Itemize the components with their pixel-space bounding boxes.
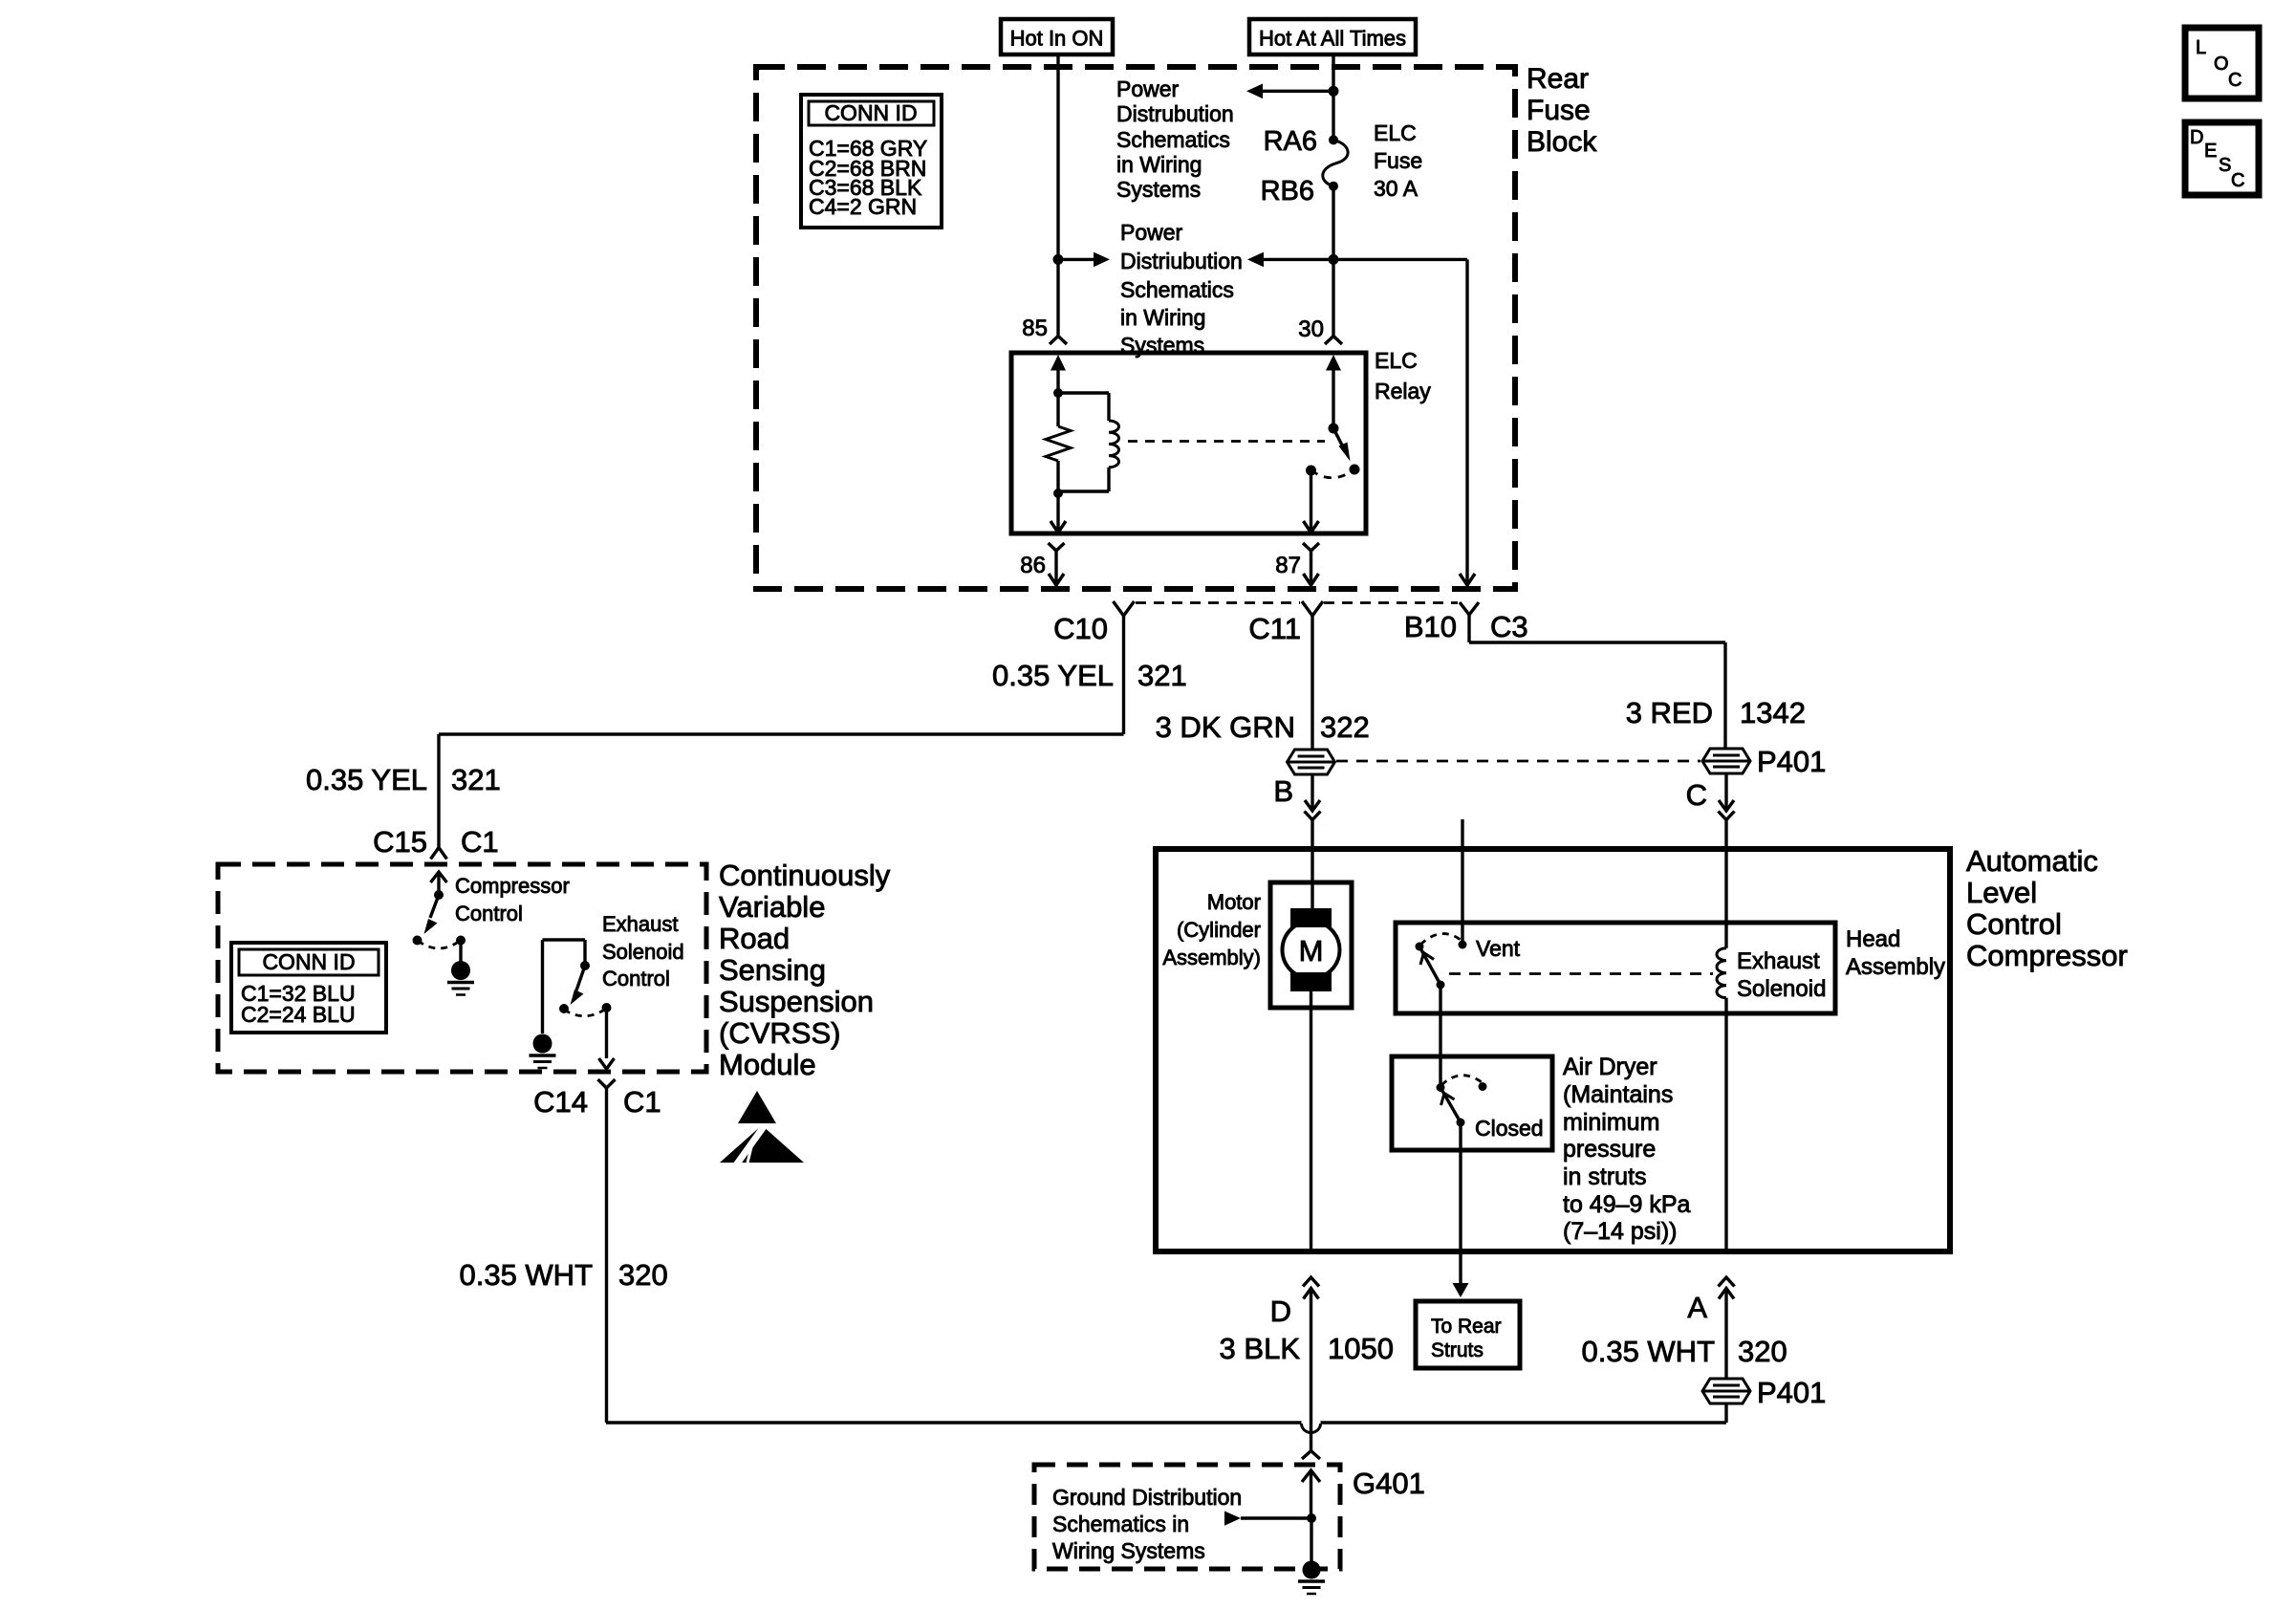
svg-text:Continuously: Continuously — [719, 859, 891, 892]
svg-text:1050: 1050 — [1328, 1332, 1394, 1365]
relay pin 85 entry arrow (inside box) — [1051, 355, 1066, 371]
svg-text:Automatic: Automatic — [1966, 844, 2098, 878]
svg-text:30 A: 30 A — [1374, 176, 1419, 201]
motor top terminal cap — [1290, 908, 1332, 927]
wire: junction to C3 feed (right then down) — [1333, 258, 1467, 261]
LOC reference box — [2185, 28, 2259, 98]
svg-text:Exhaust: Exhaust — [602, 912, 679, 936]
svg-text:320: 320 — [618, 1258, 668, 1292]
svg-text:pressure: pressure — [1563, 1136, 1656, 1163]
exhaust solenoid control fixed contact dot — [602, 1003, 612, 1012]
svg-text:Wiring Systems: Wiring Systems — [1052, 1538, 1205, 1563]
compressor control swing dashed arc — [418, 941, 460, 948]
relay NO contact dot — [1350, 465, 1360, 475]
svg-text:Solenoid: Solenoid — [1737, 976, 1826, 1002]
relay resistor element — [1056, 393, 1059, 426]
arrow to Power Distriubution text (left-pointing, lower) — [1264, 258, 1333, 261]
svg-text:Schematics: Schematics — [1120, 277, 1234, 302]
To Rear Struts box — [1416, 1301, 1520, 1368]
svg-text:Struts: Struts — [1431, 1339, 1484, 1361]
svg-text:C1: C1 — [623, 1085, 661, 1119]
svg-text:321: 321 — [1137, 659, 1187, 692]
svg-text:CONN ID: CONN ID — [824, 100, 917, 125]
svg-text:Power: Power — [1120, 220, 1183, 245]
svg-text:0.35 WHT: 0.35 WHT — [1581, 1335, 1715, 1368]
compressor control fixed contact dot — [456, 936, 466, 946]
vent switch blade with arrow — [1419, 946, 1440, 985]
svg-text:(CVRSS): (CVRSS) — [719, 1016, 840, 1050]
svg-text:Sensing: Sensing — [719, 953, 826, 987]
svg-text:C2=24 BLU: C2=24 BLU — [241, 1002, 356, 1027]
G401 inline connector — [1302, 1451, 1320, 1460]
exhaust solenoid control pivot dot — [580, 961, 590, 970]
relay contact swing dashed arc — [1311, 469, 1355, 478]
svg-text:G401: G401 — [1353, 1467, 1425, 1500]
svg-text:in Wiring: in Wiring — [1116, 152, 1202, 177]
terminal D connector below compressor box — [1303, 1277, 1319, 1287]
compressor control ground stem — [459, 941, 462, 963]
svg-text:minimum: minimum — [1563, 1109, 1659, 1136]
compressor control pivot dot — [434, 890, 444, 900]
wire: vent blade to air dryer — [1439, 985, 1441, 1088]
air dryer switch left contact dot — [1437, 1083, 1445, 1092]
svg-text:3 BLK: 3 BLK — [1220, 1332, 1301, 1365]
svg-text:Vent: Vent — [1476, 936, 1521, 961]
svg-text:Block: Block — [1527, 126, 1597, 158]
vent switch blade end dot — [1437, 981, 1445, 990]
wire: terminal B into compressor box — [1310, 820, 1313, 908]
Rear Fuse Block dashed enclosure — [756, 67, 1515, 589]
relay pin 86 exit arrow (inside box) — [1056, 493, 1059, 533]
connector chevron at pin 85 — [1050, 337, 1067, 345]
wire: air dryer to rear struts arrow — [1459, 1122, 1462, 1283]
wire: junction to ground — [1310, 1518, 1312, 1562]
svg-text:86: 86 — [1020, 553, 1046, 578]
connector chevron at pin 30 — [1325, 337, 1342, 345]
svg-text:C: C — [2228, 70, 2242, 91]
wire: solenoid to terminal A — [1724, 998, 1727, 1251]
svg-text:Suspension: Suspension — [719, 985, 874, 1018]
svg-text:M: M — [1299, 934, 1324, 968]
air dryer switch right contact dot — [1479, 1082, 1487, 1091]
Automatic Level Control Compressor box — [1156, 849, 1950, 1251]
svg-text:P401: P401 — [1757, 745, 1826, 778]
wire: terminal C into compressor box — [1724, 820, 1727, 948]
pin 87 connector below relay — [1303, 543, 1319, 551]
wire: Hot In ON to ELC relay pin 85 — [1056, 54, 1059, 337]
relay common contact dot — [1306, 466, 1316, 476]
relay switch blade — [1333, 428, 1345, 450]
svg-text:Fuse: Fuse — [1527, 95, 1591, 126]
svg-text:Systems: Systems — [1116, 177, 1201, 202]
arrow to Power Distrubution text (left-pointing, upper) — [1263, 90, 1333, 93]
svg-text:Schematics: Schematics — [1116, 127, 1230, 152]
ground G401 symbol — [1303, 1561, 1321, 1579]
svg-text:87: 87 — [1275, 553, 1301, 578]
svg-text:RB6: RB6 — [1261, 176, 1314, 207]
svg-text:Closed: Closed — [1475, 1116, 1544, 1141]
svg-text:To Rear: To Rear — [1431, 1316, 1502, 1338]
svg-text:C4=2 GRN: C4=2 GRN — [809, 194, 917, 219]
connector C14/C1 chevron — [598, 1079, 616, 1088]
svg-text:C1: C1 — [461, 825, 499, 859]
air dryer blade end dot — [1457, 1119, 1465, 1127]
svg-text:C: C — [2231, 170, 2244, 191]
inline connector P401 (left half) — [1288, 750, 1335, 774]
DESC reference box — [2185, 122, 2259, 195]
wire 3 RED 1342: C3 right and down — [1469, 641, 1725, 643]
relay switch pivot dot — [1329, 424, 1339, 434]
svg-text:Control: Control — [1966, 907, 2062, 941]
ground distribution reference arrow — [1224, 1512, 1241, 1526]
svg-text:0.35 YEL: 0.35 YEL — [992, 659, 1114, 692]
exhaust solenoid coil — [1717, 948, 1726, 998]
svg-text:Ground Distribution: Ground Distribution — [1052, 1485, 1242, 1510]
relay coil branch — [1058, 391, 1109, 394]
svg-text:Control: Control — [602, 967, 670, 990]
wire: fuse to relay pin 30 — [1332, 186, 1334, 337]
svg-text:C: C — [1686, 778, 1707, 812]
pin 86 connector below relay — [1049, 543, 1065, 551]
svg-text:85: 85 — [1022, 315, 1048, 341]
wire: P401 to terminal C — [1724, 772, 1727, 811]
ELC Fuse 30 A (fuse element RA6-RB6) — [1329, 135, 1338, 144]
svg-text:Control: Control — [455, 902, 523, 925]
svg-text:Schematics in: Schematics in — [1052, 1512, 1189, 1536]
junction dot on Hot-In-ON wire — [1053, 254, 1064, 265]
ground (exhaust solenoid control) — [533, 1034, 552, 1054]
wire: P401 to terminal B — [1310, 773, 1313, 811]
svg-text:(Cylinder: (Cylinder — [1177, 918, 1261, 942]
svg-text:Hot In ON: Hot In ON — [1010, 27, 1104, 51]
wire: motor to terminal D — [1310, 991, 1312, 1251]
relay coil top node dot — [1053, 388, 1063, 398]
ground run wire (with crossover hop) — [606, 1421, 1302, 1424]
relay coil bottom node dot — [1053, 489, 1063, 498]
svg-text:Head: Head — [1846, 926, 1900, 952]
svg-text:320: 320 — [1738, 1335, 1787, 1368]
wire: P401 down to ground run — [1724, 1403, 1727, 1423]
ground junction dot — [1307, 1513, 1316, 1523]
relay pin 87 exit arrow (inside box) — [1310, 470, 1312, 533]
svg-text:Fuse: Fuse — [1374, 148, 1422, 173]
svg-text:C11: C11 — [1248, 612, 1301, 645]
svg-text:Compressor: Compressor — [1966, 939, 2128, 972]
connector C15/C1 chevron — [431, 848, 447, 859]
exhaust solenoid control swing dashed arc — [564, 1009, 606, 1016]
svg-text:3 DK GRN: 3 DK GRN — [1156, 710, 1295, 744]
svg-text:322: 322 — [1320, 710, 1370, 744]
svg-text:Distriubution: Distriubution — [1120, 249, 1243, 273]
svg-text:B10: B10 — [1404, 610, 1457, 643]
ground (compressor control) — [451, 961, 470, 980]
svg-text:Variable: Variable — [719, 890, 825, 924]
svg-text:C14: C14 — [533, 1085, 588, 1119]
svg-text:(Maintains: (Maintains — [1563, 1081, 1673, 1108]
svg-text:3 RED: 3 RED — [1626, 696, 1713, 729]
power feed box: Hot In ON — [1001, 19, 1113, 54]
vent switch fixed contact dot — [1459, 941, 1467, 949]
motor M1 (cylinder assembly) outer box — [1270, 882, 1352, 1008]
wire 3 DK GRN 322: C11 down to P401 — [1310, 616, 1313, 751]
svg-text:321: 321 — [451, 763, 501, 796]
ELC Relay box — [1011, 353, 1366, 533]
svg-text:Distrubution: Distrubution — [1116, 101, 1234, 126]
svg-text:ELC: ELC — [1375, 348, 1418, 373]
inline connector P401 (right half) — [1702, 749, 1750, 773]
svg-text:0.35 YEL: 0.35 YEL — [306, 763, 427, 796]
svg-text:30: 30 — [1298, 316, 1324, 342]
svg-text:(7–14 psi)): (7–14 psi)) — [1563, 1218, 1678, 1245]
svg-text:in struts: in struts — [1563, 1164, 1647, 1190]
compressor control moving contact dot — [413, 936, 422, 946]
svg-text:B: B — [1273, 774, 1293, 808]
exhaust solenoid control moving contact dot — [559, 1004, 569, 1013]
ESD sensitivity symbol — [738, 1091, 776, 1123]
vent switch moving contact dot — [1416, 943, 1424, 951]
G401 dashed box — [1034, 1465, 1340, 1569]
air dryer swing dashed arc — [1441, 1076, 1482, 1085]
svg-text:Power: Power — [1116, 76, 1180, 101]
svg-text:RA6: RA6 — [1264, 126, 1317, 157]
connector row dashed line — [1136, 601, 1300, 604]
wire: exhaust solenoid control to C14 — [605, 1008, 608, 1058]
relay pin 30 entry arrow (inside box) — [1326, 355, 1341, 371]
wire: Hot At All Times to fuse — [1332, 54, 1334, 140]
svg-text:Road: Road — [719, 922, 790, 955]
svg-text:0.35 WHT: 0.35 WHT — [459, 1258, 593, 1292]
svg-text:A: A — [1687, 1291, 1707, 1324]
wire: vent feed stub — [1461, 819, 1463, 945]
svg-text:ELC: ELC — [1374, 120, 1417, 145]
svg-text:D: D — [2190, 127, 2203, 148]
CONN ID table (Rear Fuse Block) — [801, 95, 942, 228]
junction dot (to Power Distriubution ref, lower) — [1329, 254, 1339, 265]
svg-text:to 49–9 kPa: to 49–9 kPa — [1563, 1191, 1691, 1218]
connector C11 chevron — [1302, 601, 1323, 616]
svg-text:Assembly): Assembly) — [1162, 946, 1261, 969]
svg-text:in Wiring: in Wiring — [1120, 305, 1205, 330]
svg-text:C15: C15 — [373, 825, 427, 859]
arrow end of C3 feed wire at fuse block border — [1460, 574, 1475, 585]
terminal A connector below compressor box — [1719, 1277, 1735, 1287]
compressor control switch blade — [430, 895, 439, 918]
air dryer switch blade with arrow — [1442, 1091, 1461, 1122]
wire 0.35 YEL 321: C10 down, left and down to C15 — [1122, 616, 1125, 734]
svg-text:Solenoid: Solenoid — [602, 940, 684, 964]
svg-text:P401: P401 — [1757, 1376, 1826, 1409]
Air Dryer box — [1392, 1056, 1552, 1150]
relay coil-to-contact dashed link — [1128, 440, 1325, 443]
compressor control entry arrow — [431, 872, 447, 882]
exhaust solenoid control switch blade — [576, 966, 585, 990]
svg-text:Air Dryer: Air Dryer — [1563, 1054, 1657, 1080]
wire 0.35 WHT 320: C14 down to ground run — [605, 1088, 608, 1423]
connector C10 chevron — [1114, 601, 1135, 616]
svg-text:S: S — [2219, 155, 2231, 176]
svg-text:D: D — [1270, 1295, 1291, 1328]
svg-text:CONN ID: CONN ID — [262, 949, 355, 974]
P401 pair dashed link — [1336, 760, 1700, 763]
motor circle with M — [1283, 922, 1340, 979]
power feed box: Hot At All Times — [1249, 19, 1416, 54]
svg-text:1342: 1342 — [1740, 696, 1806, 729]
svg-text:C10: C10 — [1053, 612, 1108, 645]
svg-text:C3: C3 — [1490, 610, 1528, 643]
motor bottom terminal cap — [1290, 972, 1332, 991]
CVRSS module dashed box — [218, 864, 706, 1072]
svg-text:Compressor: Compressor — [455, 874, 570, 898]
vent switch swing dashed arc — [1420, 934, 1461, 945]
svg-text:Hot At All Times: Hot At All Times — [1259, 27, 1406, 51]
svg-text:Rear: Rear — [1527, 63, 1589, 95]
svg-text:E: E — [2204, 141, 2217, 162]
svg-text:Module: Module — [719, 1048, 816, 1081]
inline connector P401 (lower) — [1702, 1379, 1750, 1403]
svg-text:Level: Level — [1966, 876, 2037, 909]
svg-text:O: O — [2214, 54, 2229, 75]
svg-text:Relay: Relay — [1375, 379, 1431, 403]
vent-to-solenoid dashed link — [1449, 972, 1713, 975]
CONN ID table (CVRSS) — [231, 943, 386, 1033]
Head Assembly box — [1396, 923, 1835, 1013]
exhaust solenoid control ground stem — [541, 940, 544, 1033]
svg-text:Assembly: Assembly — [1846, 954, 1945, 980]
svg-text:Motor: Motor — [1207, 890, 1261, 914]
arrow to Power Distribution text (right-pointing) — [1058, 258, 1094, 261]
svg-text:L: L — [2196, 37, 2206, 58]
junction dot (to Power Distribution ref, upper) — [1329, 86, 1339, 97]
connector B10/C3 chevron — [1460, 602, 1479, 615]
svg-text:Exhaust: Exhaust — [1737, 948, 1820, 974]
